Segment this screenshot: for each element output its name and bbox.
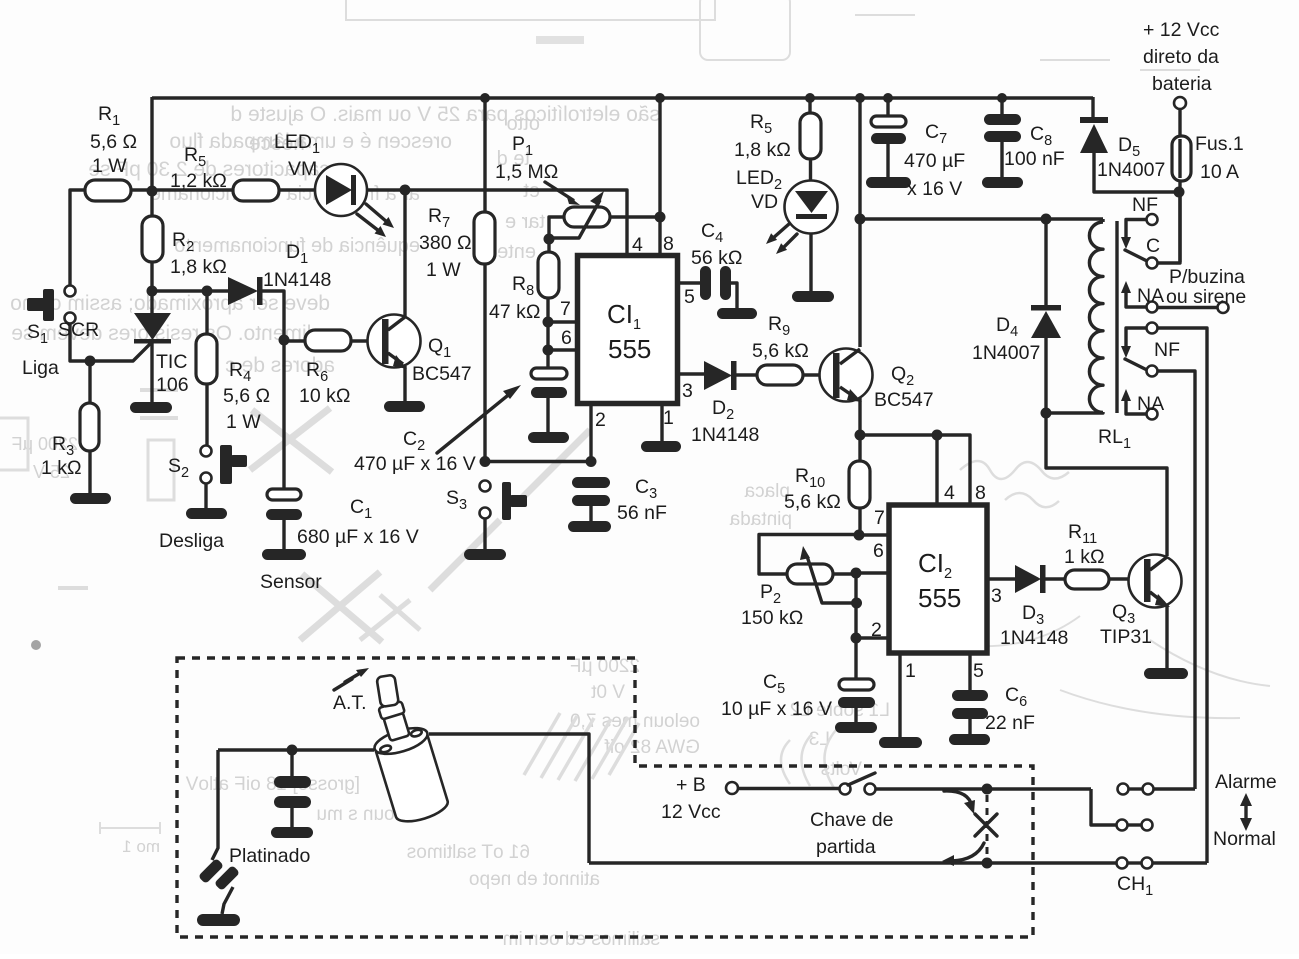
ground Q1 [384,401,425,412]
node Q2 collector / relay feed [855,214,866,225]
svg-text:são eletrolíticos para 25 V ou: são eletrolíticos para 25 V ou mais. O a… [230,103,660,126]
svg-text:A.T.: A.T. [333,692,367,714]
node fuse/D5 [1174,187,1185,198]
node pin7 [543,317,554,328]
wire pin6 stub [856,571,889,574]
node coil top / D4 [1041,214,1052,225]
node pin7 CI2 [854,530,865,541]
ignition coil A.T. [218,668,589,863]
svg-text:x 16 V: x 16 V [907,178,962,200]
svg-text:5,6 kΩ: 5,6 kΩ [752,340,809,362]
resistor R9 [752,313,834,385]
potentiometer P2 150k [741,535,859,630]
svg-text:BC547: BC547 [412,363,472,385]
svg-text:47 kΩ: 47 kΩ [489,301,540,323]
svg-text:+ 12 Vcc: + 12 Vcc [1143,19,1220,41]
svg-text:deve ser aproximado; assim com: deve ser aproximado; assim como [10,292,330,315]
ground S3 [464,549,506,560]
resistor R1 [70,103,152,286]
node anode D1 row [147,286,158,297]
svg-text:tar e: tar e [505,211,545,233]
ground pin1 CI2 [879,737,922,748]
dashed enclosure vehicle wiring [177,658,1033,937]
node R10 top [855,430,866,441]
svg-text:partida: partida [816,836,876,858]
svg-text:TIC: TIC [156,351,187,373]
cut mark X with arrows [942,791,997,866]
svg-text:otto: otto [507,113,540,135]
wire pin8 drop [658,98,661,256]
transistor Q1 BC547 [368,190,472,401]
resistor R3 [41,361,99,494]
wire pin6 stub [548,348,577,351]
resistor R4 [196,291,270,445]
node gate/R3 [85,356,96,367]
capacitor C8 100nF [982,98,1065,188]
svg-text:1: 1 [663,407,674,429]
svg-text:5,6 Ω: 5,6 Ω [90,131,137,153]
connector CH1 bottom pair [1117,858,1208,900]
node R4 top [202,286,213,297]
svg-text:2: 2 [595,409,606,431]
svg-text:TIP31: TIP31 [1100,626,1152,648]
resistor R8 [489,239,559,368]
svg-text:680 µF x 16 V: 680 µF x 16 V [297,526,419,548]
transistor Q2 BC547 [820,98,934,435]
svg-text:pintada: pintada [729,509,792,530]
svg-text:V 0t: V 0t [590,682,625,703]
potentiometer P1 1,5M [495,133,660,238]
wire R7 node to pin2 node [485,460,591,463]
svg-text:VD: VD [751,191,778,213]
svg-text:VM: VM [288,158,317,180]
node wiper [851,598,862,609]
op-amp/timer CI1 555 [560,233,695,431]
svg-text:1,5 MΩ: 1,5 MΩ [495,161,558,183]
wire +12V top rail [152,96,1093,99]
svg-text:SCR: SCR [58,319,99,341]
capacitor C6 22nF [949,653,1035,745]
resistor R10 [784,435,870,535]
capacitor C4 [677,220,757,319]
svg-text:Alarme: Alarme [1215,771,1277,793]
relay contact set4 NA [1121,389,1164,420]
svg-text:1 W: 1 W [226,411,261,433]
svg-text:Platinado: Platinado [229,845,310,867]
ground SCR [130,402,172,413]
relay contact set3 NF [1121,323,1207,864]
svg-text:7: 7 [874,507,885,529]
switch Chave de partida [810,773,1091,858]
svg-text:1N4148: 1N4148 [1000,627,1068,649]
wire relay coil to Q3 collector [1046,413,1167,556]
diode D2 1N4148 [677,361,759,446]
svg-text:106: 106 [156,374,189,396]
svg-text:100 nF: 100 nF [1004,148,1065,170]
svg-text:direto da: direto da [1143,46,1219,68]
svg-text:555: 555 [608,334,651,364]
svg-text:BC547: BC547 [874,389,934,411]
node pin6 CI2 [851,568,862,579]
resistor R6 [284,330,383,407]
capacitor C5 10uF [721,638,877,733]
svg-text:7: 7 [560,298,571,320]
svg-text:1N4007: 1N4007 [972,342,1040,364]
svg-text:1,2 kΩ: 1,2 kΩ [170,170,227,192]
transistor Q3 TIP31 [1100,555,1182,669]
svg-text:Liga: Liga [22,357,59,379]
ground Q3 [1144,668,1188,679]
svg-text:3: 3 [682,380,693,402]
svg-text:1 W: 1 W [92,155,127,177]
battery terminal +12Vcc [1143,19,1220,137]
svg-text:10 kΩ: 10 kΩ [299,385,350,407]
svg-text:1 kΩ: 1 kΩ [1064,546,1105,568]
switch S1 Liga [22,286,152,380]
svg-text:56 kΩ: 56 kΩ [691,247,742,269]
diode D1 1N4148 [152,241,331,340]
svg-text:1 kΩ: 1 kΩ [41,457,82,479]
capacitor C1 680uF Sensor [260,340,419,593]
wire breaker line to CH1 [589,861,1116,864]
svg-text:1 W: 1 W [426,259,461,281]
svg-text:5,6 kΩ: 5,6 kΩ [784,491,841,513]
capacitor condenser platinado [271,750,313,838]
wire pin7 stub [859,533,889,536]
wire pin7 stub [548,320,577,323]
wire Q2 emitter node row [860,435,970,505]
wire pin6 to pin2 [854,573,857,638]
svg-text:NF: NF [1154,339,1180,361]
svg-text:[grosso] 18 oiF atloV: [grosso] 18 oiF atloV [185,774,360,795]
svg-text:1,8 kΩ: 1,8 kΩ [734,139,791,161]
svg-text:P/buzina: P/buzina [1169,266,1245,288]
node D1/R6/C1 [279,335,290,346]
svg-text:1: 1 [905,660,916,682]
connector CH1 middle pair [1091,789,1153,831]
resistor R5 [152,144,315,201]
svg-text:1N4148: 1N4148 [263,269,331,291]
svg-text:5,6 Ω: 5,6 Ω [223,385,270,407]
node R1/R5/R2 [147,186,158,197]
svg-text:4: 4 [944,482,955,504]
svg-text:56 nF: 56 nF [617,502,667,524]
wire pin1 drop [660,404,663,441]
diode D4 1N4007 [972,219,1061,413]
svg-text:C: C [1146,235,1160,257]
ground LED2 [792,291,834,302]
switch S2 Desliga [159,445,247,552]
node pin6 [543,345,554,356]
node ignition cut top [982,784,993,795]
svg-text:NA: NA [1137,393,1164,415]
relay RL1 coil [1046,219,1131,452]
svg-text:1,8 kΩ: 1,8 kΩ [170,256,227,278]
node R7/S3 [480,456,491,467]
svg-text:61 oT saltimos: 61 oT saltimos [407,842,530,863]
svg-text:12 Vcc: 12 Vcc [661,801,721,823]
switch S3 [446,481,527,550]
wire pin4 drop [935,435,938,505]
svg-text:1N4148: 1N4148 [691,424,759,446]
resistor R11 [1064,521,1145,589]
svg-text:555: 555 [918,583,961,613]
node pin4 CI2 [932,430,943,441]
terminal +B 12Vcc [661,774,840,823]
resistor R2 [142,191,227,291]
fuse Fus.1 10A [1172,133,1244,262]
timer CI2 555 [871,482,1002,682]
svg-text:NA: NA [1137,285,1164,307]
node P1 right on pin8 wire [655,212,666,223]
svg-text:Sensor: Sensor [260,571,322,593]
node condenser tap [287,745,298,756]
svg-text:mo 1: mo 1 [122,837,160,856]
svg-text:Normal: Normal [1213,828,1276,850]
node rail junctions [480,93,1007,103]
svg-text:10 A: 10 A [1200,161,1239,183]
wire left rail drop to R2 node [150,97,153,191]
svg-text:150 kΩ: 150 kΩ [741,607,803,629]
svg-text:4: 4 [632,234,643,256]
svg-text:470 µF x 16 V: 470 µF x 16 V [354,453,476,475]
svg-text:+ B: + B [676,774,706,796]
breaker Platinado [197,750,310,926]
node LED1/R7 [400,185,411,196]
svg-text:sailimos ed oen im: sailimos ed oen im [503,929,660,950]
svg-text:5: 5 [973,660,984,682]
svg-text:ente: ente [497,241,536,263]
node ignition cut bottom [982,858,993,869]
wire pin1 CI2 drop [898,653,901,737]
wire pin2 drop [589,404,592,462]
node coil bottom [1041,408,1052,419]
svg-text:Fus.1: Fus.1 [1195,133,1244,155]
svg-text:atinnot eb nepo: atinnot eb nepo [469,869,600,890]
svg-text:1N4007: 1N4007 [1097,159,1165,181]
svg-text:470 µF: 470 µF [904,150,965,172]
svg-text:380 Ω: 380 Ω [419,232,472,254]
ground R3 [70,493,111,504]
svg-text:Desliga: Desliga [159,530,224,552]
capacitor C2 470uF [354,368,569,475]
svg-text:GWA 82 oif: GWA 82 oif [604,737,700,758]
LED LED2 VD [736,167,838,291]
capacitor C7 470uF [866,98,965,200]
wire pin2 stub [856,636,889,639]
svg-text:6: 6 [561,327,572,349]
wire relay coil feed [860,217,1103,220]
svg-text:8: 8 [975,482,986,504]
node pin2/C3 [586,456,597,467]
svg-text:6: 6 [873,540,884,562]
LED LED1 [274,131,405,237]
connector CH1 top pair [1118,784,1196,795]
svg-text:10 µF x 16 V: 10 µF x 16 V [721,698,832,720]
ground S2 [186,508,227,519]
thyristor SCR TIC106 [58,291,189,402]
node P1 left / R8 [544,234,555,245]
resistor R7 [419,98,495,462]
svg-text:5: 5 [684,286,695,308]
capacitor C3 56nF [568,476,667,532]
resistor R5b 1,8k [734,98,821,182]
svg-text:NF: NF [1132,194,1158,216]
relay contact set1 NF/C [1121,192,1180,269]
diode D5 1N4007 [1080,97,1179,192]
svg-text:3: 3 [991,585,1002,607]
wire LED1 node to P1/pin4 row [405,190,627,256]
svg-text:22 nF: 22 nF [985,712,1035,734]
svg-text:8: 8 [663,233,674,255]
diode D3 1N4148 [987,565,1068,649]
ground pin1 CI1 [641,441,681,452]
svg-text:Chave de: Chave de [810,809,893,831]
svg-text:ou sirene: ou sirene [1166,286,1246,308]
node pin2 CI2 [851,633,862,644]
label Alarme/Normal [1213,771,1277,850]
relay contact set2 NA buzina [1121,266,1246,313]
svg-text:bateria: bateria [1152,73,1212,95]
